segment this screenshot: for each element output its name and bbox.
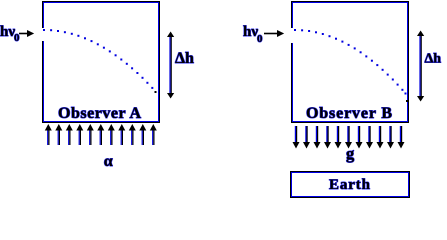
delta-h double arrow (right)	[417, 31, 424, 102]
svg-text:Observer A: Observer A	[58, 105, 141, 122]
down arrow 3	[315, 126, 317, 145]
Earth box (inner blue ring)	[291, 172, 409, 197]
up arrow 8	[120, 128, 122, 145]
down arrow 5	[336, 126, 338, 145]
down arrow 1	[294, 126, 296, 145]
downward gravity arrows under box B	[293, 126, 405, 149]
down arrow 9	[378, 126, 380, 145]
down arrow 10	[389, 126, 391, 145]
svg-text:Δh: Δh	[175, 50, 194, 67]
delta-h double arrow (left)	[167, 32, 174, 99]
gap in left wall of box A where photon enters	[42, 28, 47, 41]
svg-text:Δh: Δh	[425, 52, 442, 67]
up arrow 6	[99, 128, 101, 145]
down arrow 2	[305, 126, 307, 145]
down arrow 4	[326, 126, 328, 145]
svg-text:g: g	[346, 144, 355, 163]
elevator box Observer B (inner blue ring)	[292, 2, 408, 122]
Earth box (white interior)	[292, 173, 408, 196]
up arrow 1	[47, 128, 49, 145]
down arrow 11	[399, 126, 401, 145]
up arrow 4	[78, 128, 80, 145]
up arrow 7	[110, 128, 112, 145]
svg-text:Earth: Earth	[329, 177, 371, 193]
up arrow 2	[57, 128, 59, 145]
elevator box Observer A (inner blue ring)	[43, 2, 159, 122]
elevator box Observer B (outer black ring)	[291, 1, 409, 123]
photon label hv0 (right)	[243, 24, 263, 45]
elevator box Observer B (white interior)	[293, 3, 407, 121]
down arrow 7	[357, 126, 359, 145]
svg-text:α: α	[104, 153, 113, 170]
photon arrow (right)	[264, 31, 283, 36]
down arrow 6	[347, 126, 349, 145]
Earth box (outer black ring)	[290, 171, 410, 198]
up arrow 3	[68, 128, 70, 145]
up arrow 10	[141, 128, 143, 145]
svg-text:Observer B: Observer B	[306, 105, 392, 122]
elevator box Observer A (outer black ring)	[42, 1, 160, 123]
dotted light path in box B	[294, 29, 408, 102]
elevator box Observer A (white interior)	[44, 3, 158, 121]
svg-text:0: 0	[257, 33, 263, 45]
up arrow 9	[131, 128, 133, 145]
down arrow 8	[368, 126, 370, 145]
up arrow 11	[152, 128, 154, 145]
upward acceleration arrows under box A	[45, 124, 157, 145]
up arrow 5	[89, 128, 91, 145]
dotted light path in box A	[43, 29, 157, 93]
photon label hv0 (left)	[0, 24, 20, 44]
gap in left wall of box B where photon enters	[291, 28, 296, 43]
photon arrow (left)	[19, 31, 33, 36]
